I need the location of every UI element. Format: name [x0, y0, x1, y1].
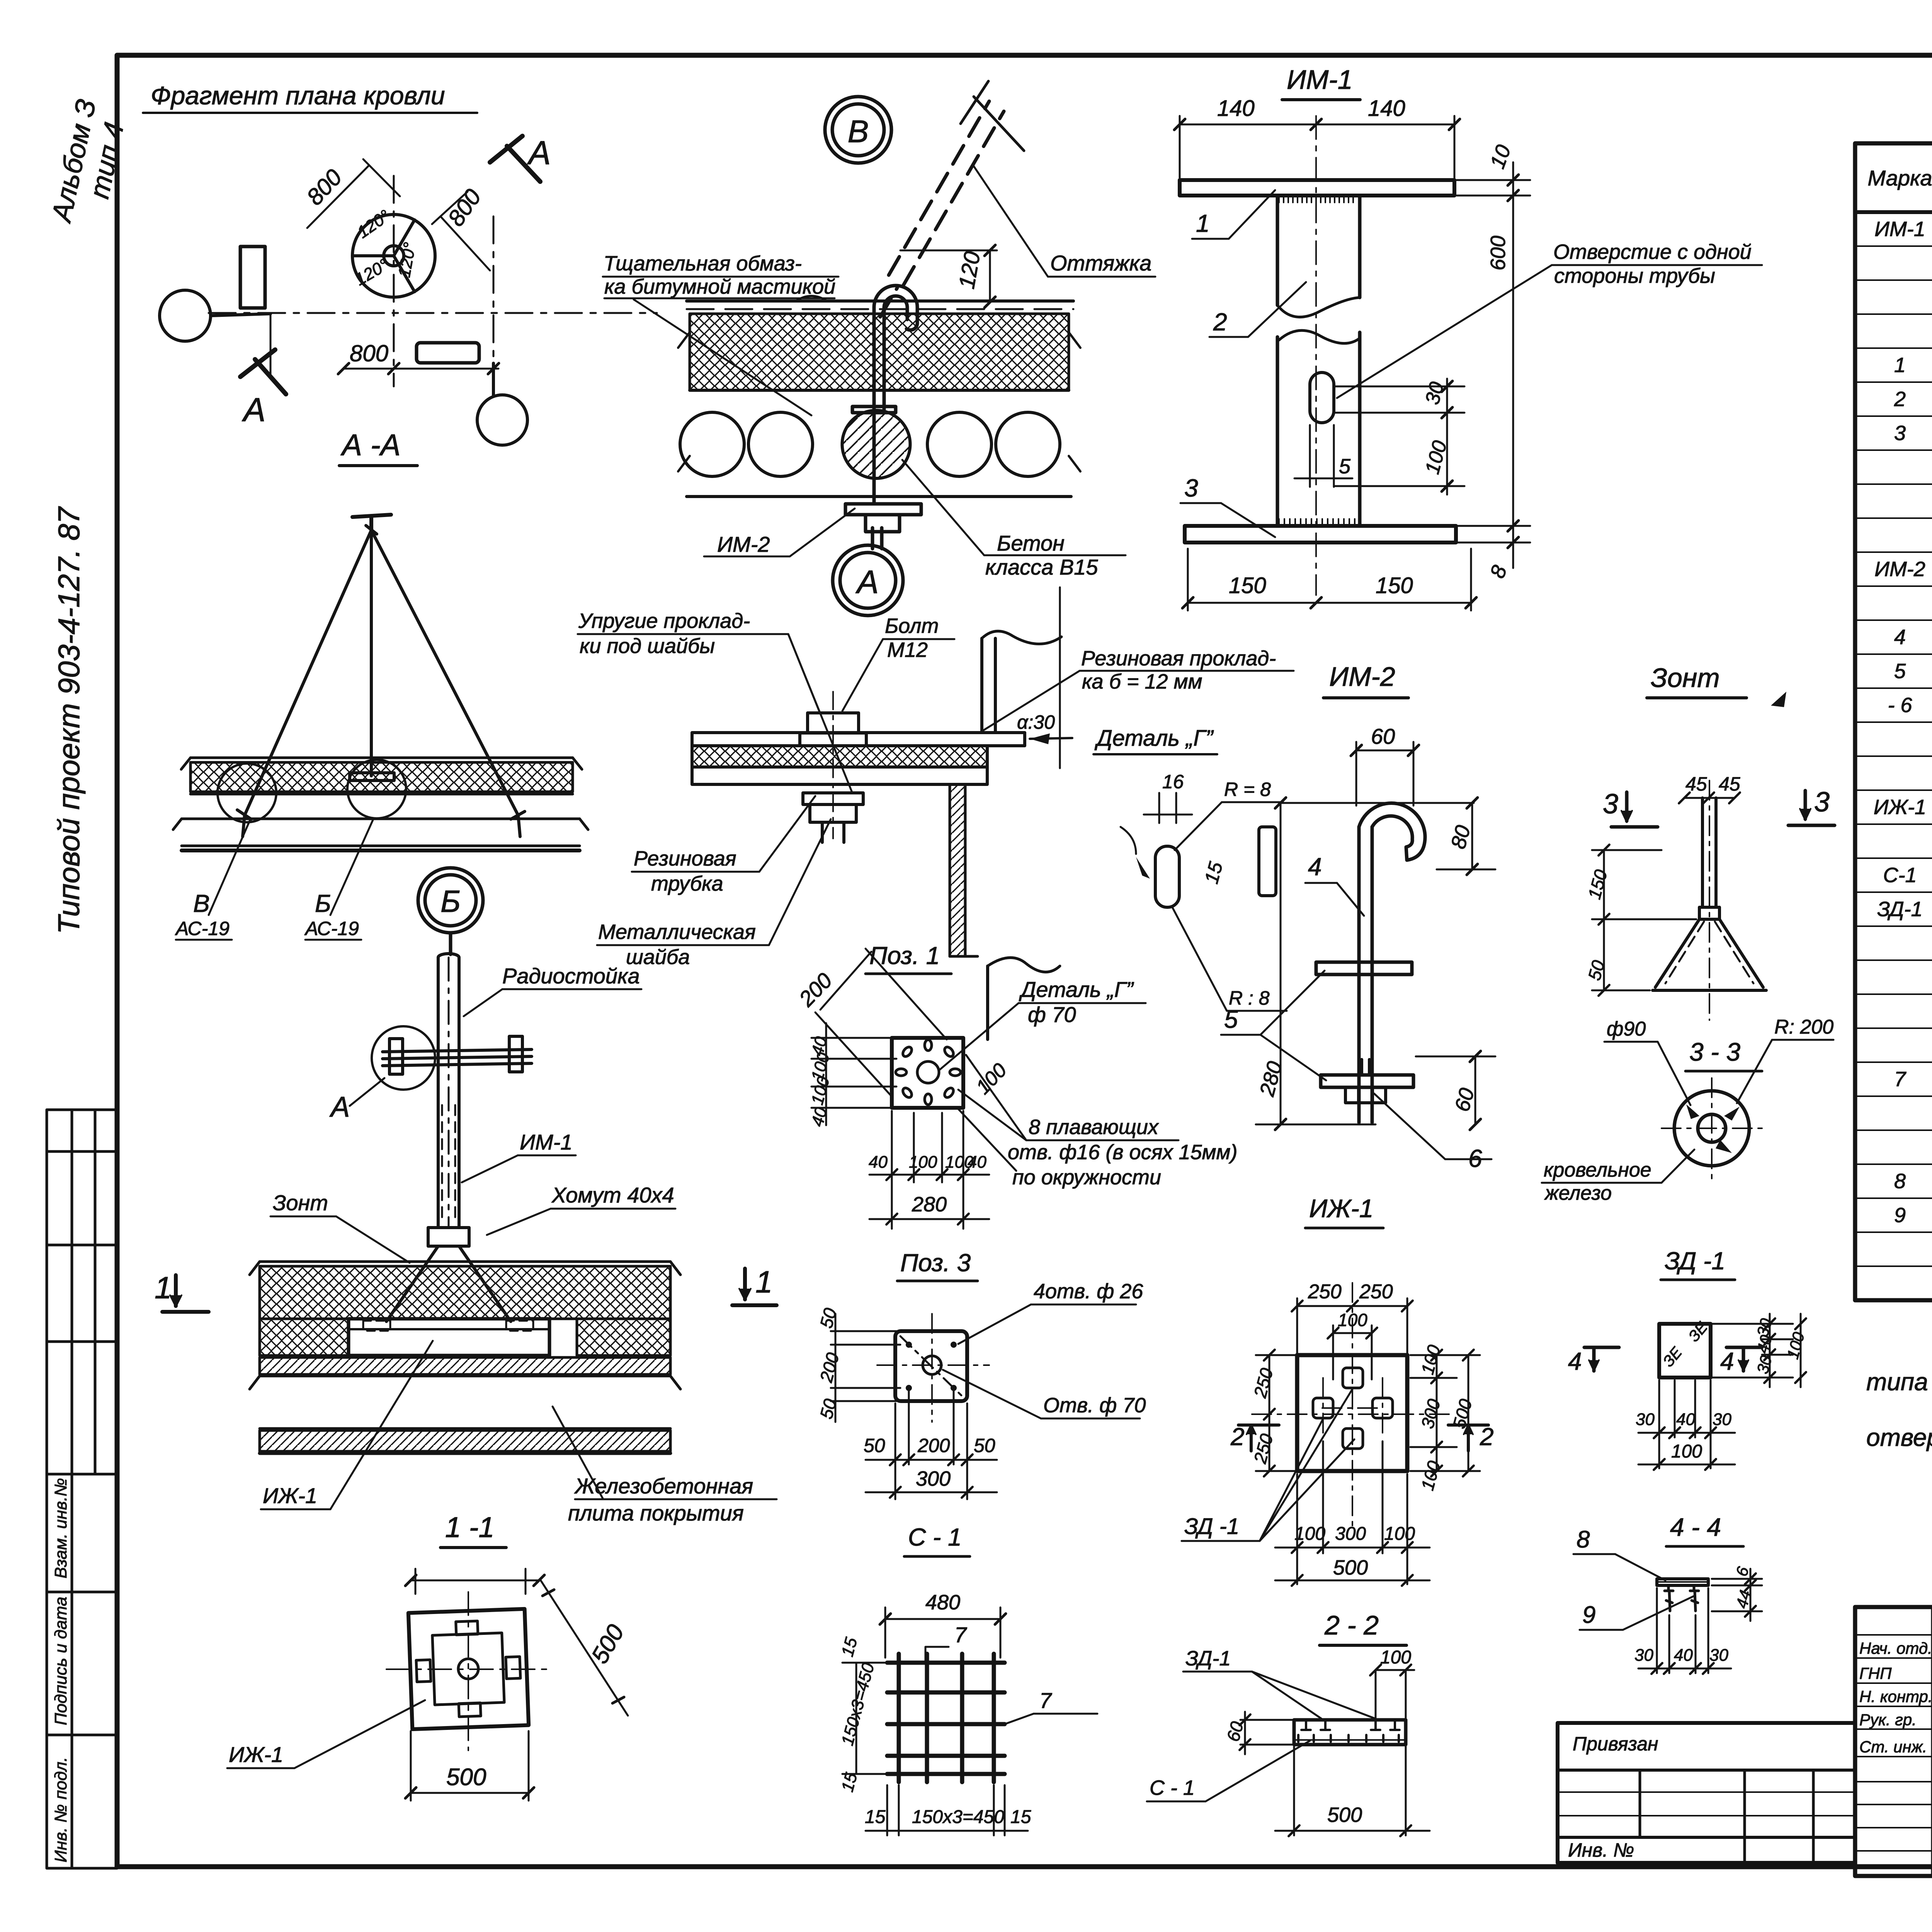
- IZh-1 right dims 100 300 100 500: [1410, 1350, 1480, 1476]
- A detail: pipe lower break: [988, 957, 1060, 1039]
- label rezinovaya prokladka: [1081, 647, 1276, 693]
- svg-text:Зонт: Зонт: [273, 1190, 328, 1215]
- svg-text:500: 500: [1327, 1803, 1362, 1827]
- IM-2 top extension line: [1279, 802, 1474, 804]
- svg-text:Хомут 40х4: Хомут 40х4: [551, 1183, 674, 1207]
- label radiostoika: [502, 964, 640, 988]
- C-1 dim 480 top: [880, 1607, 1006, 1658]
- IZh-1 holes: [1313, 1368, 1393, 1449]
- svg-text:3 - 3: 3 - 3: [1689, 1037, 1740, 1066]
- plan: vent rect lower: [417, 343, 479, 363]
- B view marker circle: [418, 868, 483, 954]
- svg-text:50: 50: [864, 1435, 885, 1456]
- detail G labels R=8: [1162, 771, 1271, 1009]
- svg-text:Марка: Марка: [1867, 166, 1932, 190]
- svg-text:С - 1: С - 1: [908, 1523, 962, 1551]
- label krovelnoe zhelezo: [1544, 1159, 1651, 1204]
- A detail marker circle: [833, 545, 903, 616]
- svg-text:3: 3: [1184, 474, 1198, 502]
- detail G slot view: [1121, 827, 1179, 907]
- svg-text:- 6: - 6: [1888, 694, 1912, 717]
- svg-text:С-1: С-1: [1883, 864, 1917, 887]
- plan: vent rect upper: [240, 247, 265, 308]
- label concrete B15: [985, 531, 1098, 579]
- svg-text:Отверстие с одной: Отверстие с одной: [1553, 240, 1752, 264]
- Poz.1 dim 200 diagonal: [815, 949, 947, 1097]
- C-1 title: [908, 1523, 962, 1551]
- svg-text:300: 300: [1335, 1524, 1366, 1544]
- svg-text:отв. ф16 (в осях 15мм): отв. ф16 (в осях 15мм): [1008, 1141, 1238, 1164]
- svg-text:500: 500: [1333, 1556, 1368, 1579]
- table rows text: [1874, 218, 1932, 1227]
- label 4 otv f26: [1034, 1280, 1143, 1303]
- svg-text:М12: М12: [887, 638, 928, 662]
- label IZh-1: [263, 1483, 317, 1508]
- C-1 label 7 top: [954, 1622, 967, 1647]
- svg-text:4: 4: [1720, 1347, 1734, 1375]
- svg-text:А: А: [527, 134, 551, 172]
- IZh-1 dim 250 250 top: [1292, 1298, 1413, 1358]
- svg-text:α:30: α:30: [1017, 711, 1055, 733]
- title block: signature table: [1855, 1607, 1932, 1876]
- svg-text:Радиостойка: Радиостойка: [502, 964, 640, 988]
- 2-2 dim 100: [1380, 1647, 1411, 1668]
- IM-2 leader 6: [1468, 1145, 1482, 1172]
- svg-text:R: 200: R: 200: [1774, 1016, 1833, 1038]
- svg-text:АС-19: АС-19: [304, 918, 359, 939]
- V roof: top coat lines: [687, 296, 1073, 309]
- label IM-2 under slab: [717, 532, 770, 556]
- svg-text:8 плавающих: 8 плавающих: [1029, 1116, 1159, 1139]
- svg-text:7: 7: [1039, 1688, 1052, 1713]
- B base: IZh-1 block: [349, 1319, 549, 1355]
- svg-text:ф 70: ф 70: [1028, 1002, 1076, 1027]
- svg-text:140: 140: [1368, 96, 1405, 121]
- svg-text:7: 7: [954, 1622, 967, 1647]
- svg-text:Нач. отд.: Нач. отд.: [1859, 1639, 1932, 1657]
- svg-text:Н. контр.: Н. контр.: [1859, 1687, 1932, 1706]
- svg-text:АС-19: АС-19: [175, 918, 230, 939]
- IM-2 lower plate: [1321, 1075, 1413, 1087]
- svg-text:3: 3: [1603, 789, 1618, 820]
- ZD-1 section mark 4 right: [1720, 1347, 1734, 1375]
- svg-text:5: 5: [1894, 660, 1906, 683]
- ZD-1 title: [1665, 1247, 1725, 1275]
- svg-text:ИМ-1: ИМ-1: [1874, 218, 1925, 241]
- IZh-1 plan square: [1297, 1355, 1407, 1471]
- svg-text:15: 15: [865, 1807, 886, 1827]
- V roof: hollow core slab: [678, 332, 1080, 497]
- svg-text:R : 8: R : 8: [1229, 987, 1270, 1009]
- svg-text:600: 600: [1486, 236, 1510, 270]
- svg-text:100: 100: [1338, 1310, 1367, 1330]
- mast elevation below B: pipe: [438, 954, 459, 1228]
- A detail: plates sandwich: [692, 733, 1025, 784]
- svg-text:8: 8: [1894, 1170, 1906, 1193]
- IM-1 pipe upper part: [1277, 196, 1360, 526]
- svg-text:2: 2: [1480, 1423, 1494, 1451]
- 2-2 anchors on band: [1294, 1720, 1406, 1742]
- svg-text:40: 40: [1674, 1646, 1693, 1665]
- svg-text:Деталь „Г”: Деталь „Г”: [1019, 977, 1134, 1002]
- svg-text:40: 40: [1676, 1410, 1695, 1429]
- IM-1 bottom plate: [1185, 526, 1456, 543]
- svg-text:4 - 4: 4 - 4: [1670, 1513, 1721, 1541]
- C-1 bottom dims: [866, 1785, 1028, 1835]
- svg-text:3: 3: [1814, 787, 1830, 818]
- C-1 label 7 right: [1039, 1688, 1052, 1713]
- svg-text:40: 40: [968, 1153, 986, 1172]
- svg-text:5: 5: [1339, 455, 1351, 478]
- svg-text:Упругие проклад-: Упругие проклад-: [578, 609, 750, 633]
- guy wire dashed (ottyazhka): [880, 101, 1004, 317]
- svg-text:ЗД -1: ЗД -1: [1184, 1514, 1239, 1539]
- IM-2 leader 4: [1308, 853, 1322, 881]
- section mark A bottom-left: [240, 350, 286, 394]
- A detail: bracket leg above plate: [982, 587, 1061, 768]
- svg-text:30: 30: [1636, 1410, 1655, 1429]
- plan: circle left: [160, 290, 270, 341]
- svg-text:Резиновая: Резиновая: [634, 847, 736, 870]
- label otv f70: [1043, 1394, 1146, 1417]
- 2-2 concrete band: [1294, 1720, 1406, 1745]
- svg-text:4: 4: [1894, 626, 1906, 649]
- label zont: [273, 1190, 328, 1215]
- signature table text: [1859, 1639, 1932, 1756]
- svg-text:2: 2: [1213, 308, 1227, 336]
- svg-text:250: 250: [1359, 1281, 1393, 1303]
- svg-text:ИЖ-1: ИЖ-1: [1874, 796, 1926, 819]
- svg-text:R = 8: R = 8: [1224, 779, 1271, 800]
- svg-text:ка б = 12 мм: ка б = 12 мм: [1082, 670, 1202, 693]
- svg-text:100: 100: [1671, 1441, 1702, 1462]
- svg-text:1: 1: [1894, 354, 1906, 377]
- 4-4 drawing: [1657, 1579, 1708, 1585]
- 1-1 centerlines: [386, 1592, 553, 1750]
- svg-text:А -А: А -А: [340, 428, 401, 462]
- A-A elevation: mast apex tee: [352, 515, 391, 530]
- 4-4 leader 9: [1582, 1602, 1595, 1628]
- IM-2 dim 60 right lower: [1416, 1051, 1495, 1130]
- A detail: bolt: [800, 692, 866, 842]
- plan: dim 800 diagonal upper-left: [307, 159, 400, 228]
- attachment table text: [1568, 1733, 1658, 1861]
- clamp with bolts: [383, 1036, 532, 1074]
- svg-text:типа Э-42 по ГОСТ 9467-75. Тол: типа Э-42 по ГОСТ 9467-75. Толщина шва h…: [1866, 1368, 1932, 1396]
- north arrow mark: [1771, 692, 1786, 707]
- svg-text:4отв. ф 26: 4отв. ф 26: [1034, 1280, 1143, 1303]
- svg-text:150: 150: [1229, 573, 1266, 598]
- svg-text:Поз. 3: Поз. 3: [900, 1249, 971, 1277]
- IM-1 oval hole: [1310, 372, 1334, 423]
- svg-text:В: В: [848, 114, 869, 149]
- A detail callout circle on clamp: [372, 1026, 435, 1090]
- 4-4 dims right 6 44: [1712, 1569, 1762, 1621]
- labels f90 R=200: [1607, 1016, 1833, 1040]
- IM-2 leader 5: [1224, 1005, 1238, 1033]
- 2-2 label C-1: [1150, 1776, 1195, 1799]
- svg-text:ЗД-1: ЗД-1: [1877, 898, 1922, 921]
- Poz.1 left dims: [811, 1023, 896, 1125]
- svg-text:ГНП: ГНП: [1859, 1664, 1892, 1682]
- svg-text:ИМ-2: ИМ-2: [1874, 558, 1925, 581]
- svg-text:800: 800: [350, 340, 388, 366]
- svg-text:Отв. ф 70: Отв. ф 70: [1043, 1394, 1146, 1417]
- label khomut 40x4: [551, 1183, 674, 1207]
- svg-text:ЗД-1: ЗД-1: [1185, 1647, 1231, 1670]
- svg-text:Инв. № подл.: Инв. № подл.: [51, 1757, 70, 1862]
- svg-text:Подпись и дата: Подпись и дата: [51, 1597, 70, 1725]
- svg-text:4: 4: [1568, 1347, 1582, 1375]
- label 8 floating holes: [1008, 1116, 1238, 1189]
- C-1 mesh: [887, 1654, 1005, 1782]
- svg-text:100: 100: [1384, 1524, 1415, 1544]
- label reinforced slab: [568, 1474, 753, 1525]
- B base: umbrella cone: [386, 1246, 511, 1321]
- A-A elevation: guy wires: [237, 526, 525, 837]
- svg-text:30: 30: [1713, 1410, 1731, 1429]
- IM-2 dim 280 left: [1256, 798, 1376, 1130]
- roof plan title: [151, 81, 445, 110]
- notes: [1866, 1333, 1932, 1451]
- svg-text:ИМ-1: ИМ-1: [1287, 65, 1353, 95]
- 3-3 title: [1689, 1037, 1740, 1066]
- svg-text:1: 1: [1196, 209, 1210, 237]
- svg-text:Оттяжка: Оттяжка: [1050, 251, 1151, 275]
- V: anchor hook through slab: [845, 286, 921, 549]
- left margin stamp table: [47, 1110, 117, 1868]
- specification table grid: [1855, 143, 1932, 1300]
- svg-text:15: 15: [1010, 1807, 1031, 1827]
- svg-text:Б: Б: [440, 884, 461, 918]
- IM-2 nut: [1345, 1060, 1386, 1103]
- table header: [1867, 156, 1932, 197]
- svg-text:150х3=450: 150х3=450: [912, 1807, 1004, 1827]
- 4-4 title: [1670, 1513, 1721, 1541]
- IZh-1 dim 100 top: [1328, 1325, 1377, 1379]
- A detail: angle web hatched below: [950, 784, 978, 956]
- IM-2 upper plate: [1316, 962, 1412, 975]
- svg-text:2 - 2: 2 - 2: [1324, 1610, 1379, 1640]
- svg-text:8: 8: [1577, 1526, 1590, 1553]
- IM-1 center line: [1315, 116, 1317, 595]
- IM-1 leader 3: [1184, 474, 1198, 502]
- B base: roof layers with hatch: [250, 1262, 680, 1453]
- Zont: section marks 3: [1603, 789, 1618, 820]
- svg-text:ИМ-2: ИМ-2: [717, 532, 770, 556]
- V roof: insulation crosshatch band: [690, 314, 1069, 390]
- svg-text:Рук. гр.: Рук. гр.: [1859, 1711, 1917, 1729]
- svg-text:30: 30: [1709, 1646, 1728, 1665]
- IM-2 dim 60 top: [1351, 742, 1419, 806]
- IM-1 weld ticks above bottom plate: [1279, 519, 1355, 526]
- svg-text:1 -1: 1 -1: [445, 1511, 495, 1543]
- svg-text:250: 250: [1308, 1281, 1342, 1303]
- vertical text: project number: [52, 506, 86, 934]
- label: careful bitumen coating: [604, 252, 835, 298]
- svg-text:9: 9: [1582, 1602, 1595, 1628]
- svg-text:1: 1: [755, 1265, 773, 1299]
- svg-text:150: 150: [1376, 573, 1413, 598]
- svg-text:Деталь „Г”: Деталь „Г”: [1094, 726, 1214, 751]
- svg-text:Тщательная обмаз-: Тщательная обмаз-: [604, 252, 802, 275]
- Poz.3 plate: [895, 1331, 967, 1401]
- svg-text:Бетон: Бетон: [997, 531, 1065, 555]
- detail G slot: small plate: [1259, 827, 1276, 896]
- svg-text:Взам. инв.№: Взам. инв.№: [51, 1478, 70, 1578]
- 2-2 label ZD-1: [1185, 1647, 1231, 1670]
- IM-1 dim 5 under hole: [1294, 425, 1352, 487]
- label rezinovaya trubka: [634, 847, 736, 895]
- C-1 left dims: [842, 1663, 893, 1774]
- plan: mast rose circle: [352, 214, 435, 297]
- svg-text:В: В: [193, 889, 210, 917]
- 2-2 dim 500 bottom: [1275, 1747, 1430, 1836]
- svg-text:Фрагмент плана кровли: Фрагмент плана кровли: [151, 81, 445, 110]
- svg-text:Зонт: Зонт: [1651, 663, 1720, 693]
- A-A elevation: anchor callout circles: [218, 760, 406, 822]
- IM-2 hook rod: [1359, 803, 1425, 1122]
- svg-text:Резиновая проклад-: Резиновая проклад-: [1081, 647, 1276, 670]
- A-A elevation: roof slab: [173, 758, 588, 850]
- IZh-1 centerlines: [1252, 1283, 1453, 1530]
- svg-text:кровельное: кровельное: [1544, 1159, 1651, 1181]
- IM-1 dim 140+140 top: [1174, 116, 1460, 178]
- ZD-1 plate: [1659, 1324, 1711, 1378]
- Poz.1 title: [869, 942, 940, 969]
- Zont title: [1651, 663, 1720, 693]
- svg-text:А: А: [855, 564, 879, 600]
- Zont dims 45 45: [1685, 773, 1740, 795]
- 3-3 circle detail: [1674, 1091, 1749, 1166]
- IM-1 dim 150+150 bottom: [1182, 549, 1476, 611]
- detail G title: [1094, 726, 1214, 751]
- ZD-1 dims right 30 40 30 100: [1711, 1314, 1806, 1387]
- Poz.3 bottom dims: [866, 1391, 997, 1499]
- label IM-1: [520, 1130, 573, 1154]
- svg-text:ИМ-2: ИМ-2: [1329, 662, 1395, 692]
- plan: center axis horizontal: [209, 176, 657, 394]
- IM-2 dim 80 right: [1437, 798, 1495, 875]
- IM-1 leader 1: [1196, 209, 1210, 237]
- 2-2 dim 60 left: [1240, 1712, 1298, 1754]
- IM-1 leader 2: [1213, 308, 1227, 336]
- svg-text:ЗД -1: ЗД -1: [1665, 1247, 1725, 1275]
- svg-text:2: 2: [1230, 1423, 1245, 1451]
- svg-text:трубка: трубка: [651, 872, 723, 895]
- svg-text:Привязан: Привязан: [1573, 1733, 1658, 1755]
- svg-text:Б: Б: [315, 889, 331, 917]
- svg-text:ИЖ-1: ИЖ-1: [1309, 1194, 1373, 1223]
- IM-1 dims 30 100 near hole: [1334, 379, 1464, 495]
- Poz.3 title: [900, 1249, 971, 1277]
- svg-text:шайба: шайба: [626, 946, 690, 969]
- label IZh-1 at plan: [229, 1742, 283, 1767]
- svg-text:ф90: ф90: [1607, 1018, 1646, 1040]
- plan: dim 800 horizontal: [270, 314, 499, 375]
- svg-text:480: 480: [925, 1591, 960, 1614]
- svg-text:30: 30: [1634, 1646, 1653, 1665]
- 4-4 leader 8: [1577, 1526, 1590, 1553]
- svg-text:200: 200: [917, 1435, 950, 1456]
- svg-text:500: 500: [446, 1764, 486, 1791]
- 2-2 title: [1324, 1610, 1379, 1640]
- svg-text:60: 60: [1371, 724, 1395, 748]
- svg-text:16: 16: [1162, 771, 1184, 793]
- label otverstie: [1553, 240, 1752, 287]
- svg-text:класса В15: класса В15: [985, 555, 1098, 579]
- svg-text:С - 1: С - 1: [1150, 1776, 1195, 1799]
- section mark A top-right: [490, 136, 540, 182]
- svg-text:100: 100: [909, 1153, 937, 1172]
- svg-text:2: 2: [1894, 388, 1906, 411]
- Zont body: [1653, 798, 1766, 990]
- svg-text:140: 140: [1217, 96, 1255, 121]
- ZD-1 dims bottom 30 40 30 100: [1638, 1380, 1735, 1470]
- svg-text:Болт: Болт: [885, 614, 939, 638]
- svg-text:45: 45: [1685, 773, 1707, 795]
- IM-1 right dims 10 600 8: [1457, 162, 1530, 568]
- Zont left dims 150 50: [1592, 845, 1696, 996]
- svg-text:по окружности: по окружности: [1012, 1166, 1161, 1189]
- IZh-1 left dims 250 250: [1256, 1350, 1302, 1476]
- vertical text: album: [46, 97, 130, 226]
- label ZD-1 with leaders: [1184, 1514, 1239, 1539]
- svg-text:ИМ-1: ИМ-1: [520, 1130, 573, 1154]
- svg-text:ка битумной мастикой: ка битумной мастикой: [604, 275, 835, 298]
- plan: circle lower right: [477, 363, 527, 445]
- hidden IM-1 inside mast: [442, 1105, 455, 1221]
- section marks 1 left and right: [155, 1270, 172, 1305]
- IM-1 title: [1287, 65, 1353, 95]
- ZD-1 section mark 4 left: [1568, 1347, 1582, 1375]
- svg-text:50: 50: [974, 1435, 995, 1456]
- svg-text:стороны трубы: стороны трубы: [1554, 264, 1715, 287]
- svg-text:100: 100: [1294, 1524, 1325, 1544]
- svg-text:Типовой проект 903-4-127. 87: Типовой проект 903-4-127. 87: [52, 506, 86, 934]
- Poz.1 dim 100 diagonal right: [958, 1109, 1016, 1171]
- Poz.1 plate: [892, 1038, 963, 1108]
- ZD-1 weld symbols: [1660, 1318, 1711, 1370]
- IM-1 top plate: [1180, 180, 1454, 196]
- A-A elevation: anchor pad: [350, 773, 394, 781]
- A-A labels B and B(base): [175, 889, 359, 939]
- IZh-1 plan title: [1309, 1194, 1373, 1223]
- svg-text:А: А: [329, 1091, 350, 1123]
- IZh-1 bottom dims: [1275, 1441, 1430, 1586]
- 1-1 dims 500: [405, 1569, 628, 1801]
- V detail marker circle: [825, 97, 891, 163]
- label d=30 with arrow: [1017, 711, 1055, 733]
- svg-text:Ст. инж.: Ст. инж.: [1859, 1738, 1927, 1756]
- svg-text:3: 3: [1894, 422, 1906, 445]
- Poz.1 bottom dims: [869, 1111, 989, 1229]
- svg-text:Металлическая: Металлическая: [598, 920, 756, 944]
- Poz.3 centerlines: [877, 1314, 989, 1422]
- svg-text:отверстия и пропустить НМ-1.: отверстия и пропустить НМ-1.: [1866, 1423, 1932, 1451]
- IM-1 weld ticks under top plate: [1279, 196, 1353, 202]
- left attachment table: [1558, 1723, 1855, 1863]
- svg-text:плита покрытия: плита покрытия: [568, 1501, 744, 1525]
- 1-1 title: [445, 1511, 495, 1543]
- svg-text:ки под шайбы: ки под шайбы: [580, 634, 715, 658]
- svg-text:ИЖ-1: ИЖ-1: [263, 1483, 317, 1508]
- B base section: clamp band on mast: [428, 1228, 469, 1246]
- label uprugie prokladki: [578, 609, 750, 658]
- svg-text:40: 40: [869, 1153, 888, 1172]
- dim 120 at hook: [900, 245, 997, 308]
- label detail G f70: [1019, 977, 1134, 1027]
